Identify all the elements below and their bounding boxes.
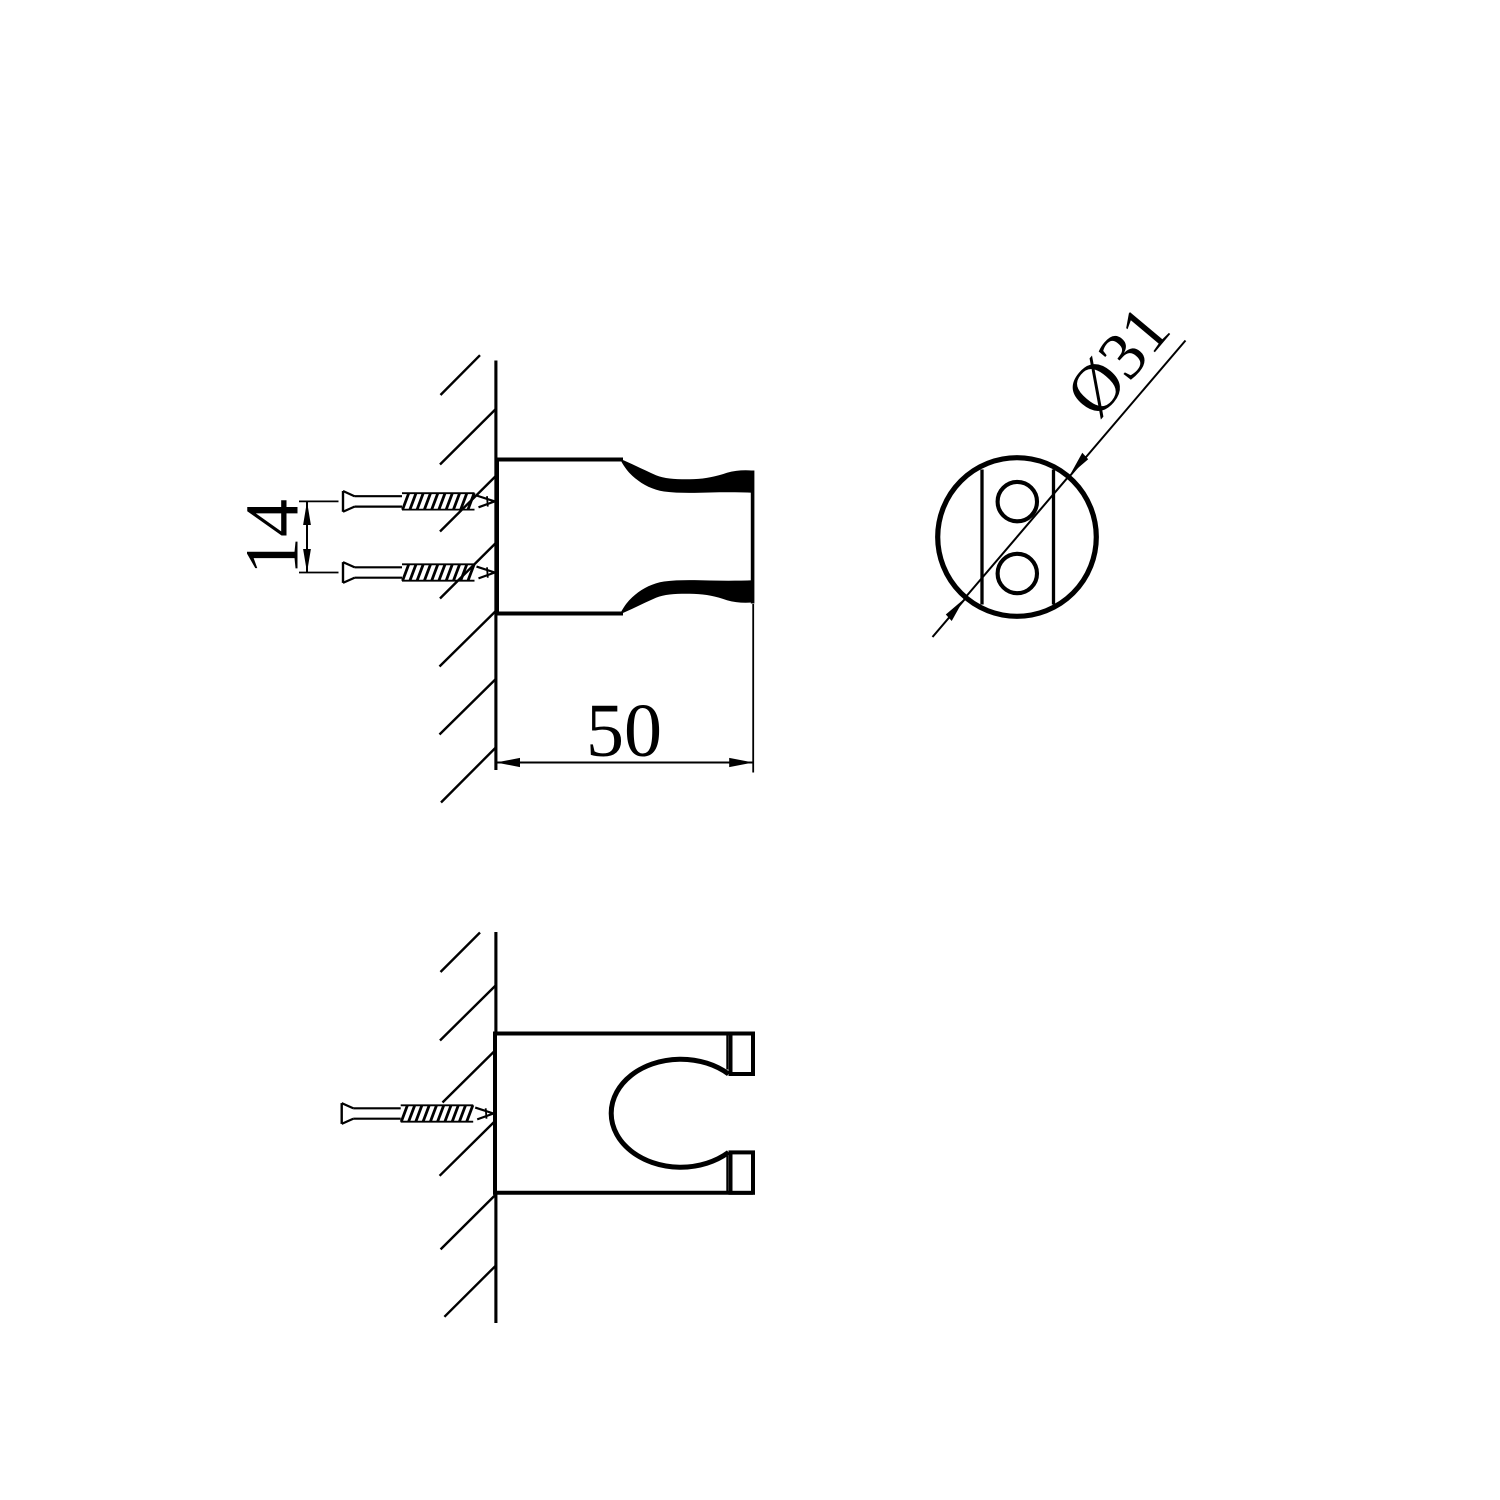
dim 50 extension line right [752, 604, 754, 773]
wall line (front view) [494, 932, 497, 1323]
top-right notch [731, 1034, 754, 1075]
slot inner edge upper [726, 1035, 728, 1070]
wall hatch line [441, 355, 481, 395]
bracket front top edge [493, 1032, 753, 1036]
bracket right edge [751, 471, 755, 604]
wall hatch line [440, 543, 496, 599]
arrow at lower-left of circle [946, 599, 964, 621]
wall line (side view) [494, 361, 497, 771]
dim 14 arrow down [303, 549, 311, 573]
bottom-right notch [731, 1152, 754, 1192]
screw hole upper [998, 482, 1037, 521]
left chord [980, 470, 983, 605]
svg-text:50: 50 [586, 689, 662, 773]
bracket bottom edge [495, 612, 623, 616]
diameter line over circle [964, 475, 1070, 599]
diameter dimension line [933, 341, 1186, 638]
wall hatch line [440, 986, 496, 1041]
svg-text:14: 14 [231, 499, 315, 575]
dim 50 arrow right [729, 758, 753, 767]
bracket front body white fill [495, 1034, 753, 1193]
wall hatch line [444, 1266, 495, 1317]
bracket front left edge [493, 1032, 497, 1195]
right chord [1052, 470, 1055, 605]
outer circle [938, 458, 1097, 617]
wall hatch line [441, 1195, 495, 1249]
clamp profile lower band (mirror) [621, 580, 753, 614]
bracket top edge [495, 458, 623, 462]
screw S1 (upper) [343, 491, 495, 512]
bracket left edge [495, 458, 499, 616]
dim 14 arrow up [303, 501, 311, 525]
screw S2 (lower) [343, 562, 495, 583]
clamp profile upper band [621, 459, 753, 493]
screw S3 (front view) [342, 1103, 494, 1124]
wall hatch line [441, 933, 481, 973]
wall hatch line [440, 409, 496, 465]
wall hatch line [440, 476, 496, 532]
wall hatch line [441, 748, 496, 803]
wall hatch line [440, 679, 496, 735]
bracket body (side view) white fill [497, 460, 752, 614]
wall hatch line [440, 611, 496, 667]
screw hole lower [998, 554, 1037, 593]
dim 14 extension line upper [299, 500, 339, 502]
wall hatch line [443, 1050, 496, 1103]
arrow at upper-right of circle [1070, 453, 1088, 475]
dim 14 dimension line [306, 501, 308, 572]
bracket front bottom edge [493, 1191, 753, 1195]
cradle C-opening [611, 1059, 728, 1167]
svg-text:Ø31: Ø31 [1051, 292, 1184, 431]
slot inner edge lower [726, 1156, 728, 1191]
dim 50 arrow left [496, 758, 520, 767]
dim 50 dimension line [496, 762, 753, 764]
wall hatch line [440, 1121, 496, 1176]
dim 14 extension line lower [299, 572, 339, 574]
